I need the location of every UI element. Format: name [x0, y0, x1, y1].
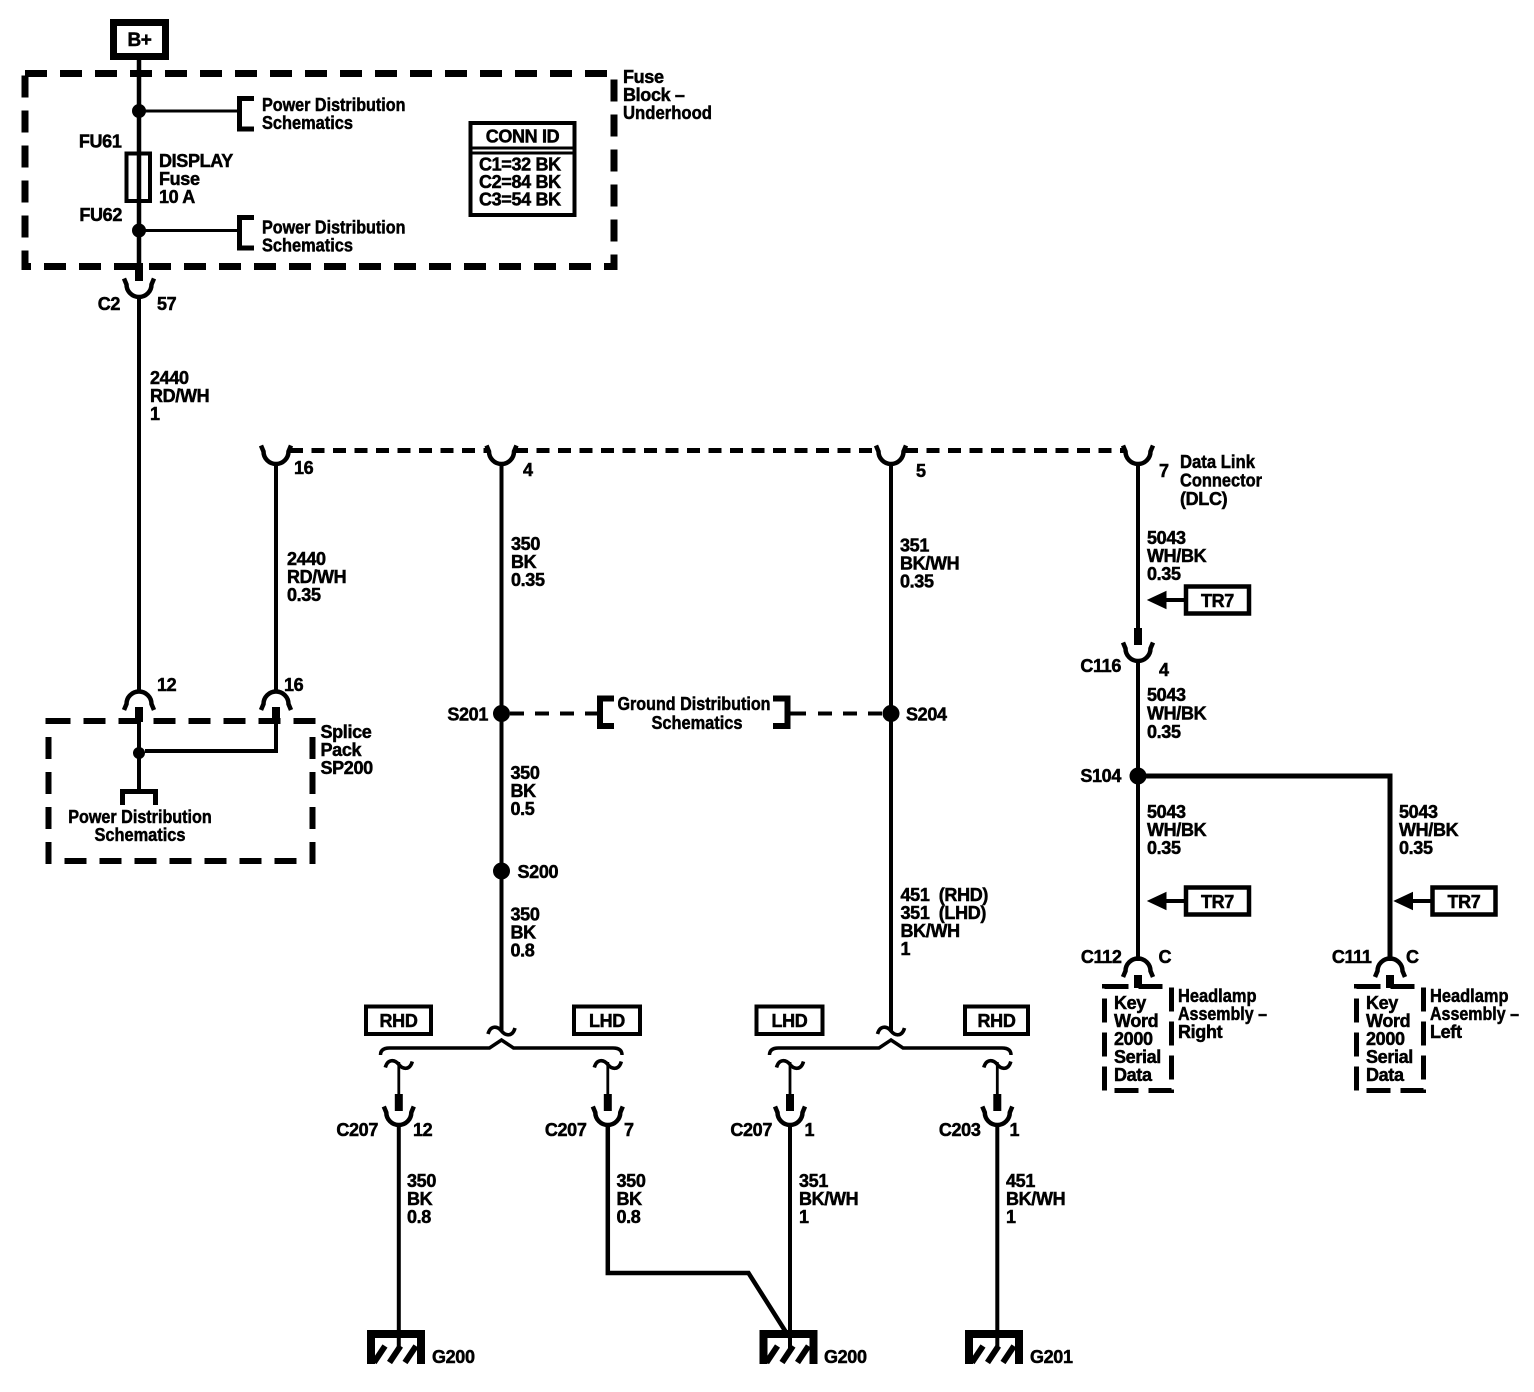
- connector C207 pin 12: [395, 1094, 403, 1111]
- component Key Word 2000 Serial Data (right): [1105, 987, 1172, 1091]
- splice S104: [1130, 768, 1146, 784]
- svg-text:RD/WH: RD/WH: [150, 386, 209, 406]
- svg-text:Assembly –: Assembly –: [1430, 1004, 1519, 1024]
- wire B+ to fuse block: [137, 58, 142, 266]
- junction (FU62 output): [133, 224, 146, 237]
- svg-text:Schematics: Schematics: [95, 825, 186, 845]
- svg-text:0.35: 0.35: [511, 570, 545, 590]
- drop leader C207-1: [789, 1062, 792, 1095]
- svg-text:G201: G201: [1030, 1347, 1073, 1367]
- DLC connector pin 7: [1123, 446, 1153, 465]
- svg-text:57: 57: [157, 294, 177, 314]
- svg-text:Serial: Serial: [1114, 1047, 1161, 1067]
- svg-text:BK/WH: BK/WH: [799, 1189, 858, 1209]
- svg-text:5043: 5043: [1147, 685, 1186, 705]
- svg-text:16: 16: [284, 675, 304, 695]
- svg-text:S201: S201: [447, 705, 488, 725]
- svg-text:Left: Left: [1430, 1022, 1462, 1042]
- wire 5043 WH/BK 0.35 (DLC to C116): [1136, 463, 1140, 630]
- svg-text:Block –: Block –: [623, 85, 685, 105]
- svg-text:C207: C207: [545, 1120, 587, 1140]
- svg-text:Underhood: Underhood: [623, 103, 712, 123]
- drop leader C203-1: [996, 1062, 999, 1095]
- off-page connector Power Distribution Schematics (bottom of fuse block): [240, 218, 255, 249]
- svg-text:C3=54 BK: C3=54 BK: [479, 190, 561, 210]
- connector C203 pin 1: [993, 1094, 1001, 1111]
- svg-text:C207: C207: [336, 1120, 378, 1140]
- wire splice 12 down: [137, 722, 141, 789]
- svg-text:Power Distribution: Power Distribution: [262, 95, 406, 115]
- svg-text:S104: S104: [1080, 766, 1121, 786]
- svg-text:B+: B+: [127, 30, 151, 51]
- drop leader C207-7: [606, 1062, 609, 1095]
- svg-text:RHD: RHD: [978, 1011, 1016, 1031]
- svg-text:Headlamp: Headlamp: [1430, 986, 1509, 1006]
- svg-text:FU61: FU61: [79, 132, 122, 152]
- wire 351 BK/WH 1 (to G200 center): [788, 1126, 792, 1349]
- svg-text:BK: BK: [617, 1189, 643, 1209]
- svg-text:Key: Key: [1366, 993, 1398, 1013]
- svg-text:TR7: TR7: [1448, 892, 1481, 912]
- break squiggle (drop C207-12): [385, 1061, 412, 1069]
- wire 350 BK 0.5: [500, 714, 504, 872]
- svg-text:4: 4: [523, 460, 533, 480]
- break squiggle (wire 350): [488, 1027, 515, 1035]
- splice S200: [494, 863, 510, 879]
- svg-text:TR7: TR7: [1201, 591, 1234, 611]
- svg-text:Data: Data: [1114, 1065, 1153, 1085]
- DLC connector pin 4: [487, 446, 517, 465]
- svg-text:Right: Right: [1178, 1022, 1223, 1042]
- svg-text:0.8: 0.8: [511, 941, 535, 961]
- svg-text:451 (RHD): 451 (RHD): [901, 885, 989, 905]
- dashed link ground distribution to S204: [818, 712, 883, 716]
- splice S201: [494, 706, 510, 722]
- svg-text:5: 5: [916, 461, 926, 481]
- svg-text:(DLC): (DLC): [1180, 489, 1228, 509]
- svg-text:0.8: 0.8: [617, 1207, 641, 1227]
- svg-text:S200: S200: [518, 862, 559, 882]
- svg-text:2000: 2000: [1114, 1029, 1153, 1049]
- svg-text:2440: 2440: [150, 368, 189, 388]
- wire 5043 WH/BK 0.35 (C116 to S104): [1136, 660, 1140, 776]
- wire 2440 RD/WH 1: [137, 296, 141, 691]
- break squiggle (drop C207-7): [594, 1061, 621, 1069]
- svg-text:BK: BK: [511, 781, 537, 801]
- connector C116 pin 4: [1134, 628, 1142, 645]
- svg-text:Word: Word: [1366, 1011, 1410, 1031]
- svg-text:4: 4: [1159, 660, 1169, 680]
- TR7 reference 2: [1186, 888, 1249, 915]
- svg-text:0.35: 0.35: [1399, 838, 1433, 858]
- svg-text:451: 451: [1006, 1171, 1035, 1191]
- svg-text:350: 350: [617, 1171, 646, 1191]
- svg-text:Fuse: Fuse: [623, 67, 664, 87]
- option box RHD (left group): [366, 1007, 431, 1035]
- CONN ID table: [471, 123, 575, 215]
- svg-text:Serial: Serial: [1366, 1047, 1413, 1067]
- svg-text:Key: Key: [1114, 993, 1146, 1013]
- svg-text:BK/WH: BK/WH: [1006, 1189, 1065, 1209]
- svg-text:C: C: [1406, 947, 1419, 967]
- svg-text:C116: C116: [1080, 656, 1121, 676]
- DLC connector pin 5: [876, 446, 906, 465]
- svg-text:0.35: 0.35: [1147, 722, 1181, 742]
- junction (B+ / FU61 feed): [133, 105, 146, 118]
- svg-text:BK/WH: BK/WH: [900, 554, 959, 574]
- ground G200 (left): [371, 1334, 421, 1364]
- svg-text:2440: 2440: [287, 549, 326, 569]
- DLC connector pin 16: [261, 446, 291, 465]
- svg-text:351: 351: [799, 1171, 828, 1191]
- svg-text:7: 7: [624, 1120, 634, 1140]
- svg-text:WH/BK: WH/BK: [1147, 704, 1207, 724]
- wire to power distribution (bottom): [139, 229, 237, 232]
- svg-text:5043: 5043: [1147, 528, 1186, 548]
- svg-text:Pack: Pack: [321, 740, 363, 760]
- svg-text:1: 1: [805, 1120, 815, 1140]
- wire S104 to C112: [1136, 776, 1140, 961]
- wire 451/351 BK/WH 1 (S204 down): [889, 714, 893, 1032]
- svg-text:1: 1: [799, 1207, 809, 1227]
- svg-text:WH/BK: WH/BK: [1147, 820, 1207, 840]
- svg-text:DISPLAY: DISPLAY: [159, 151, 233, 171]
- svg-text:LHD: LHD: [589, 1011, 625, 1031]
- svg-text:BK: BK: [511, 552, 537, 572]
- svg-text:Ground Distribution: Ground Distribution: [618, 694, 771, 714]
- junction (splice pack): [134, 748, 145, 759]
- splice pack SP200 box (dashed): [49, 721, 313, 861]
- wire splice 16 down and across: [145, 722, 276, 751]
- svg-text:RHD: RHD: [380, 1011, 418, 1031]
- svg-text:0.35: 0.35: [1147, 564, 1181, 584]
- svg-text:Power Distribution: Power Distribution: [262, 218, 406, 238]
- wire 350 BK 0.8 (to G200 left): [397, 1126, 401, 1347]
- svg-text:Power Distribution: Power Distribution: [68, 807, 212, 827]
- svg-text:1: 1: [150, 404, 160, 424]
- svg-text:0.35: 0.35: [900, 572, 934, 592]
- svg-text:G200: G200: [824, 1347, 867, 1367]
- svg-text:0.35: 0.35: [1147, 838, 1181, 858]
- connector C2 pin 57: [135, 263, 143, 281]
- svg-text:LHD: LHD: [772, 1011, 808, 1031]
- option box LHD (left group): [574, 1007, 640, 1035]
- svg-text:Headlamp: Headlamp: [1178, 986, 1257, 1006]
- svg-text:0.5: 0.5: [511, 799, 535, 819]
- svg-text:C111: C111: [1332, 947, 1372, 967]
- wire 2440 RD/WH 0.35: [274, 463, 278, 691]
- drop leader C207-12: [397, 1062, 400, 1095]
- svg-text:0.35: 0.35: [287, 585, 321, 605]
- svg-text:12: 12: [157, 675, 177, 695]
- wire 351 BK/WH 0.35: [889, 463, 893, 706]
- wire to power distribution (top): [139, 110, 237, 113]
- dashed link S201 to ground distribution: [510, 712, 597, 716]
- svg-text:TR7: TR7: [1201, 892, 1234, 912]
- break squiggle (drop C207-1): [777, 1061, 804, 1069]
- TR7 reference 3: [1433, 888, 1496, 915]
- svg-text:C207: C207: [730, 1120, 772, 1140]
- svg-text:C112: C112: [1081, 947, 1122, 967]
- svg-text:1: 1: [901, 939, 911, 959]
- svg-text:1: 1: [1010, 1120, 1020, 1140]
- svg-text:WH/BK: WH/BK: [1399, 820, 1459, 840]
- DLC bus (dashed): [290, 448, 1124, 453]
- svg-text:Connector: Connector: [1180, 471, 1262, 491]
- splice S204: [883, 706, 899, 722]
- svg-text:Word: Word: [1114, 1011, 1158, 1031]
- ground G201: [969, 1334, 1019, 1364]
- svg-text:C2: C2: [98, 294, 121, 314]
- svg-text:FU62: FU62: [79, 205, 122, 225]
- TR7 reference 1: [1186, 587, 1249, 614]
- svg-text:Splice: Splice: [321, 722, 372, 742]
- option box LHD (right group): [757, 1007, 823, 1035]
- svg-text:WH/BK: WH/BK: [1147, 546, 1207, 566]
- connector C207 pin 1: [786, 1094, 794, 1111]
- connector C111 pin C: [1375, 959, 1405, 978]
- ground G200 (center): [764, 1334, 814, 1364]
- svg-text:Fuse: Fuse: [159, 169, 200, 189]
- off-page connector Power Distribution Schematics (top): [240, 99, 255, 130]
- power node B+: [114, 23, 166, 57]
- break squiggle (drop C203-1): [984, 1061, 1011, 1069]
- svg-text:351 (LHD): 351 (LHD): [901, 903, 987, 923]
- svg-text:0.8: 0.8: [407, 1207, 431, 1227]
- option brace LHD/RHD (right group): [770, 1040, 1012, 1055]
- wire 350 BK 0.35: [500, 463, 504, 706]
- ground distribution schematics reference: [600, 699, 614, 727]
- svg-text:351: 351: [900, 536, 929, 556]
- svg-text:C203: C203: [939, 1120, 981, 1140]
- svg-text:350: 350: [511, 763, 540, 783]
- connector 12 (splice pack): [124, 692, 154, 711]
- svg-text:10 A: 10 A: [159, 187, 195, 207]
- svg-text:12: 12: [413, 1120, 433, 1140]
- off-page connector Power Distribution Schematics (splice pack): [123, 792, 156, 806]
- svg-text:5043: 5043: [1147, 802, 1186, 822]
- svg-text:16: 16: [294, 458, 314, 478]
- component Key Word 2000 Serial Data (left): [1357, 987, 1424, 1091]
- connector 16 (splice pack): [261, 692, 291, 711]
- svg-text:C: C: [1159, 947, 1172, 967]
- svg-text:CONN ID: CONN ID: [486, 127, 560, 147]
- svg-text:SP200: SP200: [321, 758, 374, 778]
- svg-text:350: 350: [511, 534, 540, 554]
- wire 451 BK/WH 1 (to G201): [995, 1126, 999, 1349]
- svg-text:Data: Data: [1366, 1065, 1405, 1085]
- svg-text:Schematics: Schematics: [262, 236, 353, 256]
- svg-text:7: 7: [1159, 461, 1169, 481]
- connector C112 pin C: [1123, 959, 1153, 978]
- svg-text:2000: 2000: [1366, 1029, 1405, 1049]
- svg-text:Schematics: Schematics: [262, 113, 353, 133]
- wire 350 BK 0.8 (S200 down): [500, 871, 504, 1031]
- svg-text:BK: BK: [511, 923, 537, 943]
- wire 350 BK 0.8 (to G200 center): [608, 1126, 789, 1337]
- connector C207 pin 7: [604, 1094, 612, 1111]
- svg-text:5043: 5043: [1399, 802, 1438, 822]
- break squiggle (wire 451/351): [878, 1027, 905, 1035]
- option box RHD (right group): [965, 1007, 1028, 1035]
- svg-text:S204: S204: [906, 705, 947, 725]
- svg-text:350: 350: [407, 1171, 436, 1191]
- svg-text:BK/WH: BK/WH: [901, 921, 960, 941]
- svg-text:RD/WH: RD/WH: [287, 567, 346, 587]
- svg-text:G200: G200: [432, 1347, 475, 1367]
- fuse block underhood box (dashed): [25, 74, 614, 267]
- svg-text:350: 350: [511, 905, 540, 925]
- option brace RHD/LHD (left group): [381, 1040, 623, 1055]
- svg-text:1: 1: [1006, 1207, 1016, 1227]
- wire S104 branch to C111: [1138, 776, 1390, 961]
- svg-text:Data Link: Data Link: [1180, 452, 1256, 472]
- svg-text:BK: BK: [407, 1189, 433, 1209]
- svg-text:Assembly –: Assembly –: [1178, 1004, 1267, 1024]
- svg-text:Schematics: Schematics: [652, 713, 743, 733]
